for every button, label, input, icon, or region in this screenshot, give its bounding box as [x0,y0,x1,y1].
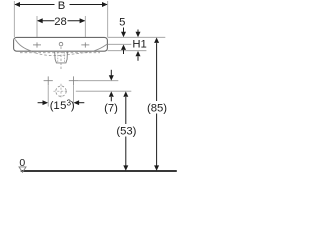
dimension 5: upper arrow [123,28,125,33]
dimension H1: upper arrow [137,30,139,33]
dimension (53): upper arrow [123,91,128,96]
dimension (85): upper arrow [154,38,159,43]
dimension (7): lower arrow [109,91,114,96]
dimension B: extension line left [13,1,15,37]
dimension 5: lower arrow [121,45,126,50]
datum triangle [19,167,26,172]
drain outlet circle (dashed) [56,86,66,96]
svg-text:5: 5 [60,100,66,112]
drain trap body under basin [55,52,68,63]
drain circle centrelines [53,90,68,92]
svg-text:H1: H1 [132,39,146,51]
dimension 28: line with arrows [38,20,85,22]
dimension (53): lower arrow [125,137,127,167]
svg-text:(53): (53) [116,126,136,138]
centre line below circle (dash-dot) [60,47,62,70]
dimension (85): lower arrow [156,114,158,167]
svg-text:0: 0 [19,157,25,169]
centre tap hole circle [59,42,63,46]
basin inner edge right diagonal [94,44,107,51]
tap hole cross left [33,42,41,47]
svg-text:1: 1 [53,100,59,112]
dimension B: extension line right [107,1,109,37]
dimension 28: extension line right [84,16,86,41]
trap hidden inner lines (dashed) [57,52,59,63]
water supply cross right [69,76,78,85]
svg-text:B: B [58,0,66,12]
bottom edge reference line [108,50,147,52]
tap hole cross right [81,42,89,47]
dimension B: line with arrows [15,4,107,6]
washbasin outline (front view) [14,37,108,51]
hidden bowl bottom (dashed arc) [31,51,94,55]
svg-text:(85): (85) [147,102,167,114]
dimension H1: lower arrow [136,51,141,56]
hidden edge under rim (dashed) [20,52,100,54]
dimension (15^3): right outside arrow [78,102,84,104]
top edge reference line [108,36,166,38]
dimension (15^3): left outside arrow [38,102,44,104]
extension below right cross [72,85,74,106]
svg-text:(7): (7) [104,102,118,114]
basin inner curve left [15,40,31,52]
rim inner reference line [108,43,132,45]
dimension 28: extension line left [36,16,38,41]
svg-text:28: 28 [54,16,67,28]
extension below left cross [47,85,49,106]
water supply cross left [44,76,53,85]
svg-text:5: 5 [119,17,125,29]
dimension (7): upper arrow [110,70,112,76]
floor line [21,170,177,172]
svg-text:): ) [71,100,75,112]
drain level reference line [76,90,132,92]
supply level reference line [78,80,118,82]
